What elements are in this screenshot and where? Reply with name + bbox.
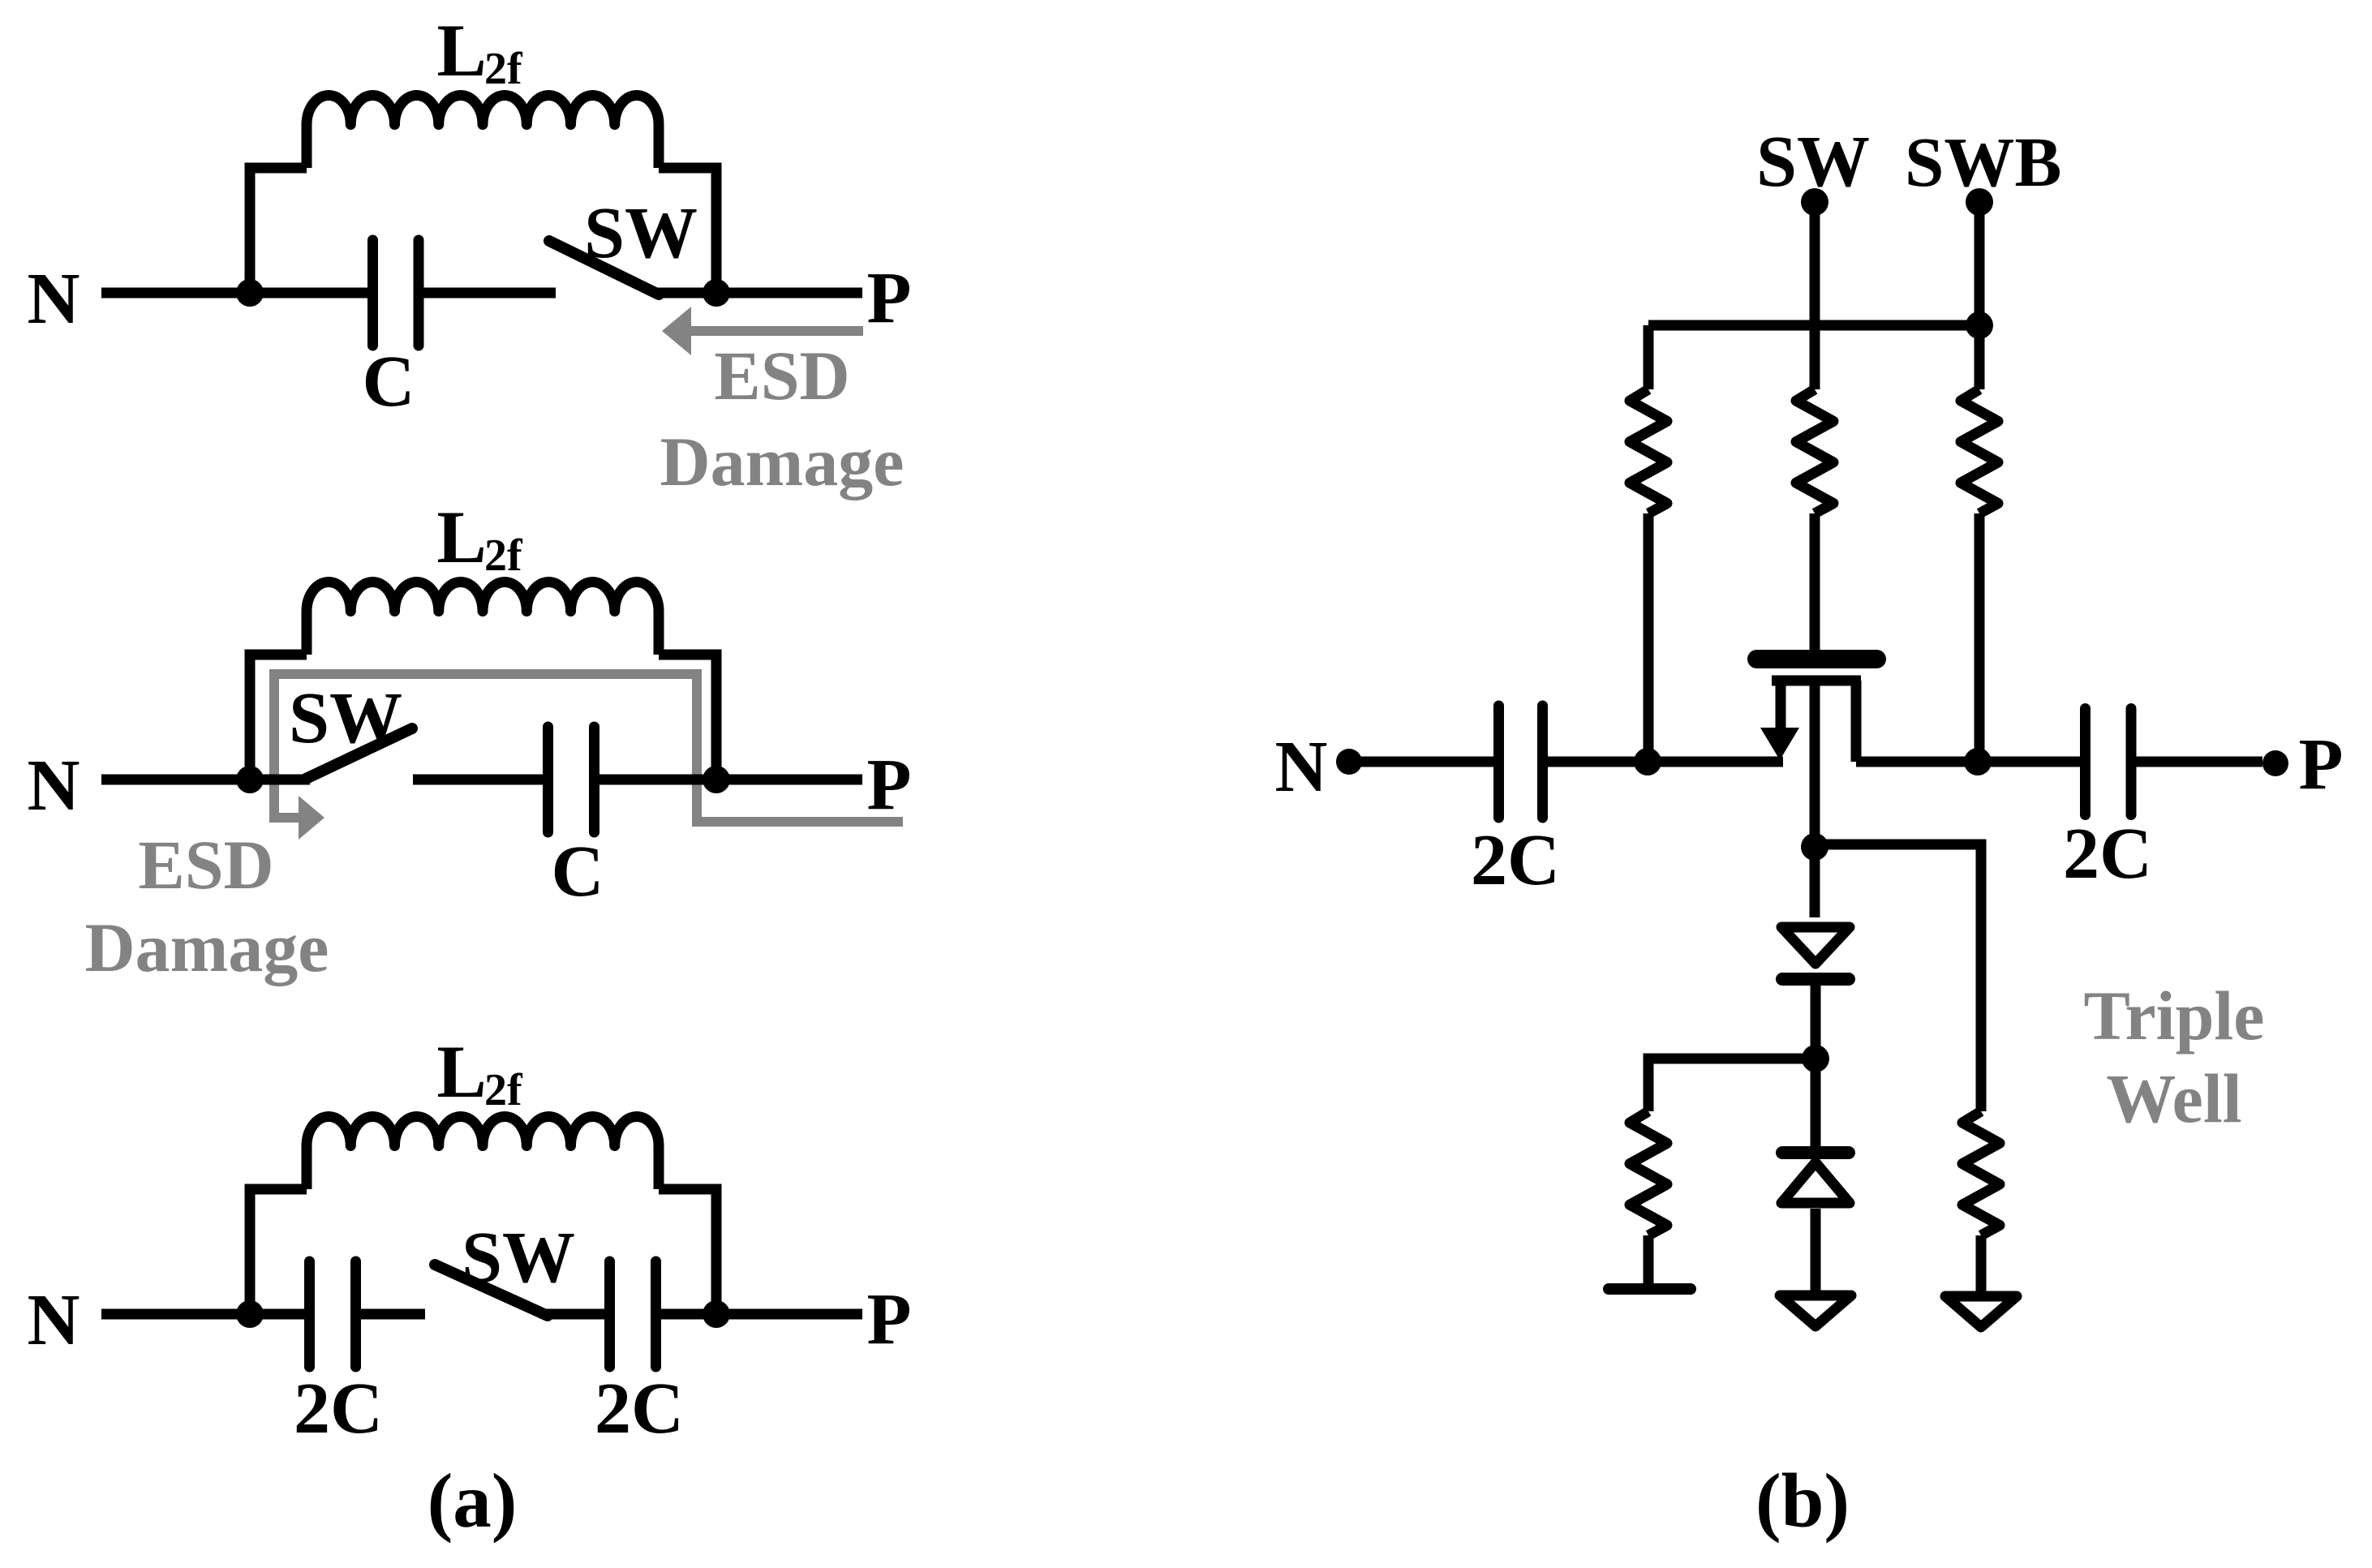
diode D1 cathode bar (b) [1782,973,1849,986]
node P (a3) [867,1279,912,1360]
svg-text:Triple: Triple [2084,977,2265,1055]
svg-text:C: C [552,831,604,912]
capacitor 2C right plates (a3) [610,1261,656,1367]
wire inductor right drop (a3) [659,1189,716,1314]
label 2C left (b) [1471,820,1560,900]
svg-text:P: P [867,745,912,825]
junction left (a2) [236,766,264,793]
caption (b) [1755,1458,1850,1544]
diode D2 anode bar (b) [1782,1146,1849,1159]
wire switch to cap (a3) [542,1309,605,1320]
ESD path (a2) [274,674,903,840]
svg-text:N: N [28,1280,80,1360]
svg-text:P: P [867,258,912,338]
transistor M1 gate bar (b) [1757,650,1877,668]
wire gate bias horizontal (b) [1648,320,1979,331]
node P (b) [2299,724,2344,805]
diode D2 triangle (b) [1781,1162,1850,1203]
svg-text:2f: 2f [484,44,523,94]
wire left resistor to N rail (b) [1644,513,1654,762]
wire N lead (a1) [101,288,367,299]
junction left (a3) [236,1300,264,1328]
inductor L2f coil (a2) [307,582,659,655]
wire bulk to diode D1 (b) [1810,847,1820,917]
junction right (a3) [703,1300,730,1328]
svg-text:C: C [363,342,415,422]
wire switch to P (a1) [654,288,862,299]
node P (a1) [867,258,912,338]
wire junction to diode D2 (b) [1811,1059,1821,1147]
svg-text:L: L [436,1030,486,1113]
svg-text:2C: 2C [1471,820,1560,900]
wire inductor left drop (a3) [250,1189,307,1314]
label C (a1) [363,342,415,422]
node N (circuit a2) [28,745,80,826]
ground bar lower left (b) [1609,1283,1691,1295]
label L2f (a2) [436,496,523,581]
label 2C right (b) [2063,814,2152,894]
svg-text:N: N [28,745,80,826]
junction P-side (b) [1964,748,1992,775]
terminal SWB (b) [1966,188,1993,325]
ESD arrow (a1) [662,307,863,355]
svg-text:L: L [436,9,486,92]
caption (a) [428,1458,518,1544]
capacitor 2C left plates (a3) [310,1261,356,1367]
junction SWB (b) [1966,311,1993,339]
wire switch to cap (a2) [413,775,543,785]
node N (circuit a3) [28,1280,80,1360]
wire N lead (a3) [101,1309,304,1320]
label ESD (a2) [138,826,273,904]
capacitor C plates (a1) [373,240,419,346]
resistor lower left (b) [1630,1111,1667,1235]
wire inductor left drop (a2) [250,655,307,780]
wire drain to cap (b) [1856,757,2080,767]
terminal dot P (b) [2262,750,2288,776]
label Triple Well (b) [2084,977,2265,1137]
capacitor C plates (a2) [548,727,595,832]
svg-text:P: P [867,1279,912,1360]
resistor lower right (b) [1962,1111,2000,1235]
svg-text:2f: 2f [484,1065,523,1115]
resistor left (b) [1630,389,1667,513]
switch SW blade (a3) [435,1265,548,1316]
svg-text:2f: 2f [484,531,523,581]
label Damage (a1) [660,423,905,500]
capacitor 2C right plates (b) [2086,709,2132,815]
wire inductor left drop (a1) [250,168,307,293]
wire cap to switch (a3) [361,1309,425,1320]
svg-text:P: P [2299,724,2344,805]
wire N lead (b) [1349,757,1493,767]
svg-text:(a): (a) [428,1458,518,1544]
wire cap to P (a2) [599,775,862,785]
inductor L2f coil (a1) [307,96,659,169]
transistor M1 drain lead (b) [1851,681,1862,762]
terminal SW (b) [1801,188,1828,389]
wire D2 to ground (b) [1811,1209,1821,1291]
wire right resistor to P rail (b) [1975,513,1985,762]
label SWB (b) [1905,122,2061,201]
diode D1 triangle (b) [1781,927,1850,964]
junction bulk (b) [1801,833,1828,861]
transistor M1 bulk lead (b) [1810,685,1820,847]
ground center (b) [1780,1295,1851,1326]
wire to ground lower right (b) [1976,1235,1987,1291]
label ESD (a1) [714,337,849,415]
switch SW blade (a1) [549,241,659,294]
transistor M1 source arrow (b) [1760,728,1799,760]
svg-text:2C: 2C [2063,814,2152,894]
junction right (a2) [703,766,730,793]
switch SW blade (a2) [306,728,412,779]
svg-text:Damage: Damage [660,423,905,500]
inductor L2f coil (a3) [307,1117,659,1190]
resistor right (b) [1961,389,1998,513]
node P (a2) [867,745,912,825]
wire to ground lower left (b) [1644,1235,1654,1289]
svg-text:N: N [28,259,80,339]
svg-text:ESD: ESD [138,826,273,904]
wire D1 to junction (b) [1811,979,1821,1059]
svg-text:Well: Well [2106,1059,2241,1137]
svg-text:ESD: ESD [714,337,849,415]
label 2C right (a3) [595,1368,684,1449]
label SW (b) [1756,122,1870,202]
wire cap to switch (a1) [424,288,556,299]
label L2f (a1) [436,9,523,94]
wire cap to P (a3) [661,1309,862,1320]
svg-text:SW: SW [462,1218,575,1298]
junction right (a1) [703,279,730,307]
label SW (a2) [289,678,402,758]
svg-text:(b): (b) [1755,1458,1850,1544]
wire cap to source (b) [1548,757,1783,767]
svg-text:2C: 2C [595,1368,684,1449]
label SW (a1) [584,193,698,273]
node N (b) [1275,727,1328,807]
transistor M1 source lead (b) [1776,681,1786,729]
svg-text:SW: SW [1756,122,1870,202]
junction body mid (b) [1802,1045,1829,1072]
label Damage (a2) [85,909,329,986]
wire to lower left resistor (b) [1648,1059,1816,1111]
terminal dot N (b) [1336,749,1362,775]
capacitor 2C left plates (b) [1499,706,1543,818]
svg-text:2C: 2C [294,1368,383,1449]
ground lower right (b) [1945,1296,2017,1327]
junction left (a1) [236,279,264,307]
wire gate lead (b) [1810,513,1820,650]
wire inductor right drop (a2) [659,655,716,780]
svg-text:SW: SW [289,678,402,758]
wire left bias drop (b) [1644,325,1654,389]
svg-text:Damage: Damage [85,909,329,986]
junction N-side (b) [1634,748,1661,775]
node N (circuit a1) [28,259,80,339]
label SW (a3) [462,1218,575,1298]
wire inductor right drop (a1) [659,168,716,293]
wire SWB to right resistor (b) [1975,325,1985,389]
svg-text:SW: SW [584,193,698,273]
svg-text:SWB: SWB [1905,122,2061,201]
svg-text:N: N [1275,727,1328,807]
label 2C left (a3) [294,1368,383,1449]
label L2f (a3) [436,1030,523,1115]
wire N lead (a2) [101,775,310,785]
label C (a2) [552,831,604,912]
svg-text:L: L [436,496,486,578]
transistor M1 channel (b) [1772,676,1861,686]
wire cap to P (b) [2137,757,2263,767]
wire bulk to right branch (b) [1815,844,1981,1111]
resistor middle (b) [1796,389,1833,513]
